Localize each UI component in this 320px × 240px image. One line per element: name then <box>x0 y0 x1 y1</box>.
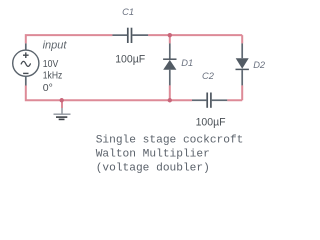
svg-text:100µF: 100µF <box>115 53 145 65</box>
svg-text:input: input <box>43 39 68 51</box>
svg-text:Walton Multiplier: Walton Multiplier <box>96 148 210 160</box>
svg-text:(voltage doubler): (voltage doubler) <box>96 163 210 175</box>
svg-text:0°: 0° <box>43 82 53 94</box>
svg-text:100µF: 100µF <box>196 116 226 128</box>
svg-text:1kHz: 1kHz <box>43 70 63 82</box>
svg-text:10V: 10V <box>43 58 59 70</box>
svg-text:C2: C2 <box>202 71 215 81</box>
svg-text:D1: D1 <box>181 58 193 68</box>
svg-text:Single stage cockcroft: Single stage cockcroft <box>96 134 244 146</box>
svg-text:D2: D2 <box>253 60 266 70</box>
svg-text:C1: C1 <box>122 7 134 17</box>
